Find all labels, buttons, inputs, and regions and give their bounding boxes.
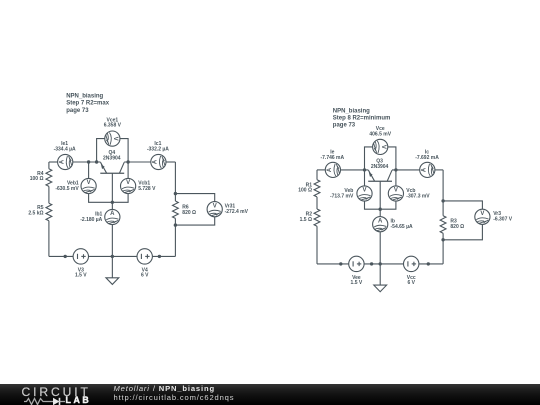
svg-text:406.5 mV: 406.5 mV — [369, 131, 391, 137]
resistor R4 — [46, 169, 52, 187]
wire R5 to bottom — [48, 221, 50, 257]
svg-text:-713.7 mV: -713.7 mV — [330, 194, 354, 200]
wire R3 out — [442, 233, 444, 240]
wire R1 to R2 — [316, 197, 318, 209]
svg-text:A: A — [59, 159, 65, 164]
voltmeter Vr31 — [207, 202, 222, 217]
wire R6 out — [174, 218, 176, 225]
svg-text:820 Ω: 820 Ω — [450, 224, 464, 230]
svg-text:V: V — [213, 203, 217, 209]
junction bottom left right-ckt — [339, 262, 342, 265]
svg-text:page 73: page 73 — [66, 108, 89, 114]
svg-text:Step 8 R2=minimum: Step 8 R2=minimum — [333, 116, 391, 122]
resistor R3 — [440, 216, 446, 234]
svg-text:-2.180 µA: -2.180 µA — [80, 217, 102, 223]
voltmeter Vcb — [388, 186, 403, 201]
wire collector to Ic1 — [124, 161, 151, 163]
svg-text:V: V — [112, 137, 118, 141]
logo diode — [45, 401, 53, 403]
junction ground node right — [379, 262, 382, 265]
svg-text:100 Ω: 100 Ω — [30, 176, 44, 182]
svg-text:2N3904: 2N3904 — [371, 164, 389, 170]
svg-text:5.728 V: 5.728 V — [138, 186, 156, 192]
wire Veb1 bottom to base — [89, 194, 113, 203]
wire V3 to V4 — [89, 255, 138, 257]
wire Ic1 to right corner — [166, 161, 175, 163]
wire R4 to R5 — [48, 186, 50, 203]
wire Vcb1 top leg — [127, 162, 129, 178]
svg-text:6 V: 6 V — [141, 273, 149, 279]
ground left — [106, 278, 119, 285]
svg-text:-6.307 V: -6.307 V — [493, 217, 513, 223]
wire Vce1 left leg — [97, 139, 105, 162]
wire to ground right — [379, 264, 381, 285]
wire R2 to bottom — [316, 226, 318, 264]
wire Ie to emitter — [341, 169, 369, 171]
resistor R2 — [314, 209, 320, 226]
svg-text:A: A — [378, 218, 383, 224]
wire Ie1 to emitter — [73, 161, 101, 163]
svg-text:NPN_biasing: NPN_biasing — [333, 108, 370, 114]
wire Vce left leg — [365, 147, 373, 170]
voltage source Vee — [349, 256, 364, 271]
wire Vcc to right corner — [419, 263, 443, 265]
wire right rail upper — [174, 162, 176, 194]
svg-text:Step 7 R2=max: Step 7 R2=max — [66, 101, 110, 107]
wire Vce1 right leg — [120, 139, 128, 162]
svg-text:-332.2 µA: -332.2 µA — [147, 147, 169, 153]
svg-text:6 V: 6 V — [407, 280, 415, 286]
resistor R1 — [314, 180, 320, 197]
logo resistor zigzag — [24, 399, 45, 405]
ammeter probe Ic1 — [151, 154, 166, 169]
svg-text:V: V — [394, 188, 398, 194]
wire bottom to V3 — [49, 255, 73, 257]
svg-text:-272.4 mV: -272.4 mV — [225, 209, 249, 215]
ammeter probe Ic — [420, 162, 435, 177]
wire Vr31 bottom — [175, 217, 214, 225]
wire Veb bottom to base — [365, 201, 381, 209]
svg-text:A: A — [110, 211, 115, 217]
svg-text:A: A — [327, 167, 333, 172]
wire collector to Ic — [392, 169, 420, 171]
wire Vee to Vcc — [364, 263, 403, 265]
wire to Vr31 top — [175, 194, 214, 202]
resistor R5 — [46, 203, 52, 221]
CircuitLab logo — [22, 386, 114, 404]
svg-text:1.5 Ω: 1.5 Ω — [300, 217, 312, 223]
ammeter probe Ie1 — [58, 154, 73, 169]
svg-text:-7.692 mA: -7.692 mA — [415, 155, 439, 161]
svg-text:V: V — [362, 188, 366, 194]
wire base to Ib — [379, 181, 381, 216]
footer attribution text — [114, 385, 235, 402]
svg-text:V: V — [480, 211, 484, 217]
footer bar — [0, 384, 540, 405]
wire Vcb1 bottom to base — [112, 194, 128, 203]
svg-text:A: A — [153, 159, 159, 164]
junction Veb1 tap — [87, 160, 90, 163]
wire Veb top leg — [364, 170, 366, 186]
wire Ic to right corner — [435, 169, 443, 171]
junction R6 top — [174, 192, 177, 195]
voltmeter Vcb1 — [121, 178, 136, 193]
wire Vcb top leg — [395, 170, 397, 186]
svg-text:-54.65 µA: -54.65 µA — [391, 224, 413, 230]
svg-text:-307.3 mV: -307.3 mV — [406, 194, 430, 200]
wire bottom to Vee — [317, 263, 349, 265]
junction ground node — [111, 255, 114, 258]
svg-text:-7.746 mA: -7.746 mA — [320, 155, 344, 161]
svg-text:V: V — [87, 180, 91, 186]
wire V4 to right corner — [152, 255, 175, 257]
ammeter probe Ie — [325, 162, 340, 177]
transistor Q3 2N3904 — [368, 170, 392, 181]
ammeter Ib1 — [105, 209, 120, 224]
junction collector node — [126, 160, 129, 163]
junction R3 bottom — [441, 238, 444, 241]
svg-text:V: V — [380, 145, 386, 149]
wire left to Ie — [317, 169, 325, 171]
wire Veb1 top leg — [88, 162, 90, 178]
voltmeter Veb — [357, 186, 372, 201]
voltmeter Veb1 — [81, 178, 96, 193]
wire Vcb bottom to base — [380, 201, 396, 209]
junction base meters — [111, 201, 114, 204]
wire to Vr3 top — [443, 201, 482, 209]
resistor R6 — [173, 201, 179, 218]
voltmeter Vr3 — [475, 209, 490, 224]
voltage source V4 — [137, 249, 152, 264]
junction bottom left — [63, 255, 66, 258]
wire right rail upper — [442, 170, 444, 201]
voltage source V3 — [73, 249, 88, 264]
junction R3 top — [441, 199, 444, 202]
junction R6 bottom — [174, 223, 177, 226]
svg-text:NPN_biasing: NPN_biasing — [66, 93, 103, 99]
wire left rail to R1 — [316, 170, 318, 180]
junction bottom right right-ckt — [427, 262, 430, 265]
wire base to Ib1 — [111, 173, 113, 209]
wire right rail lower — [174, 225, 176, 256]
svg-text:V: V — [126, 180, 130, 186]
svg-text:2.5 kΩ: 2.5 kΩ — [28, 211, 43, 217]
voltmeter Vce — [373, 139, 388, 154]
voltage source Vcc — [404, 256, 419, 271]
svg-text:6.358 V: 6.358 V — [104, 123, 122, 129]
junction emitter node — [95, 160, 98, 163]
wire to R6 — [174, 194, 176, 201]
wire Vr3 bottom — [443, 224, 482, 239]
wire left rail to R4 — [48, 162, 50, 169]
wire Ib to bottom rail — [379, 232, 381, 264]
svg-text:page 73: page 73 — [333, 123, 356, 129]
junction base meters right — [379, 208, 382, 211]
svg-text:100 Ω: 100 Ω — [298, 188, 312, 194]
svg-text:A: A — [422, 167, 428, 172]
svg-text:820 Ω: 820 Ω — [182, 210, 196, 216]
wire to R3 — [442, 201, 444, 216]
svg-text:1.5 V: 1.5 V — [75, 273, 87, 279]
transistor Q4 2N3904 — [100, 162, 124, 173]
svg-text:-334.4 µA: -334.4 µA — [54, 147, 76, 153]
wire right rail lower — [442, 240, 444, 264]
junction emitter node right — [363, 168, 366, 171]
wire top-left to Ie1 — [49, 161, 58, 163]
svg-text:-630.5 mV: -630.5 mV — [55, 186, 79, 192]
svg-text:2N3904: 2N3904 — [103, 156, 121, 162]
wire Ib1 to bottom rail — [111, 225, 113, 257]
wire Vce right leg — [388, 147, 396, 170]
junction Vee-to-ground segment — [370, 262, 373, 265]
junction bottom right — [158, 255, 161, 258]
svg-text:1.5 V: 1.5 V — [351, 280, 363, 286]
voltmeter Vce1 — [105, 131, 120, 146]
ground right — [374, 285, 387, 292]
ammeter Ib — [373, 217, 388, 232]
junction collector node right — [394, 168, 397, 171]
wire to ground — [111, 256, 113, 277]
